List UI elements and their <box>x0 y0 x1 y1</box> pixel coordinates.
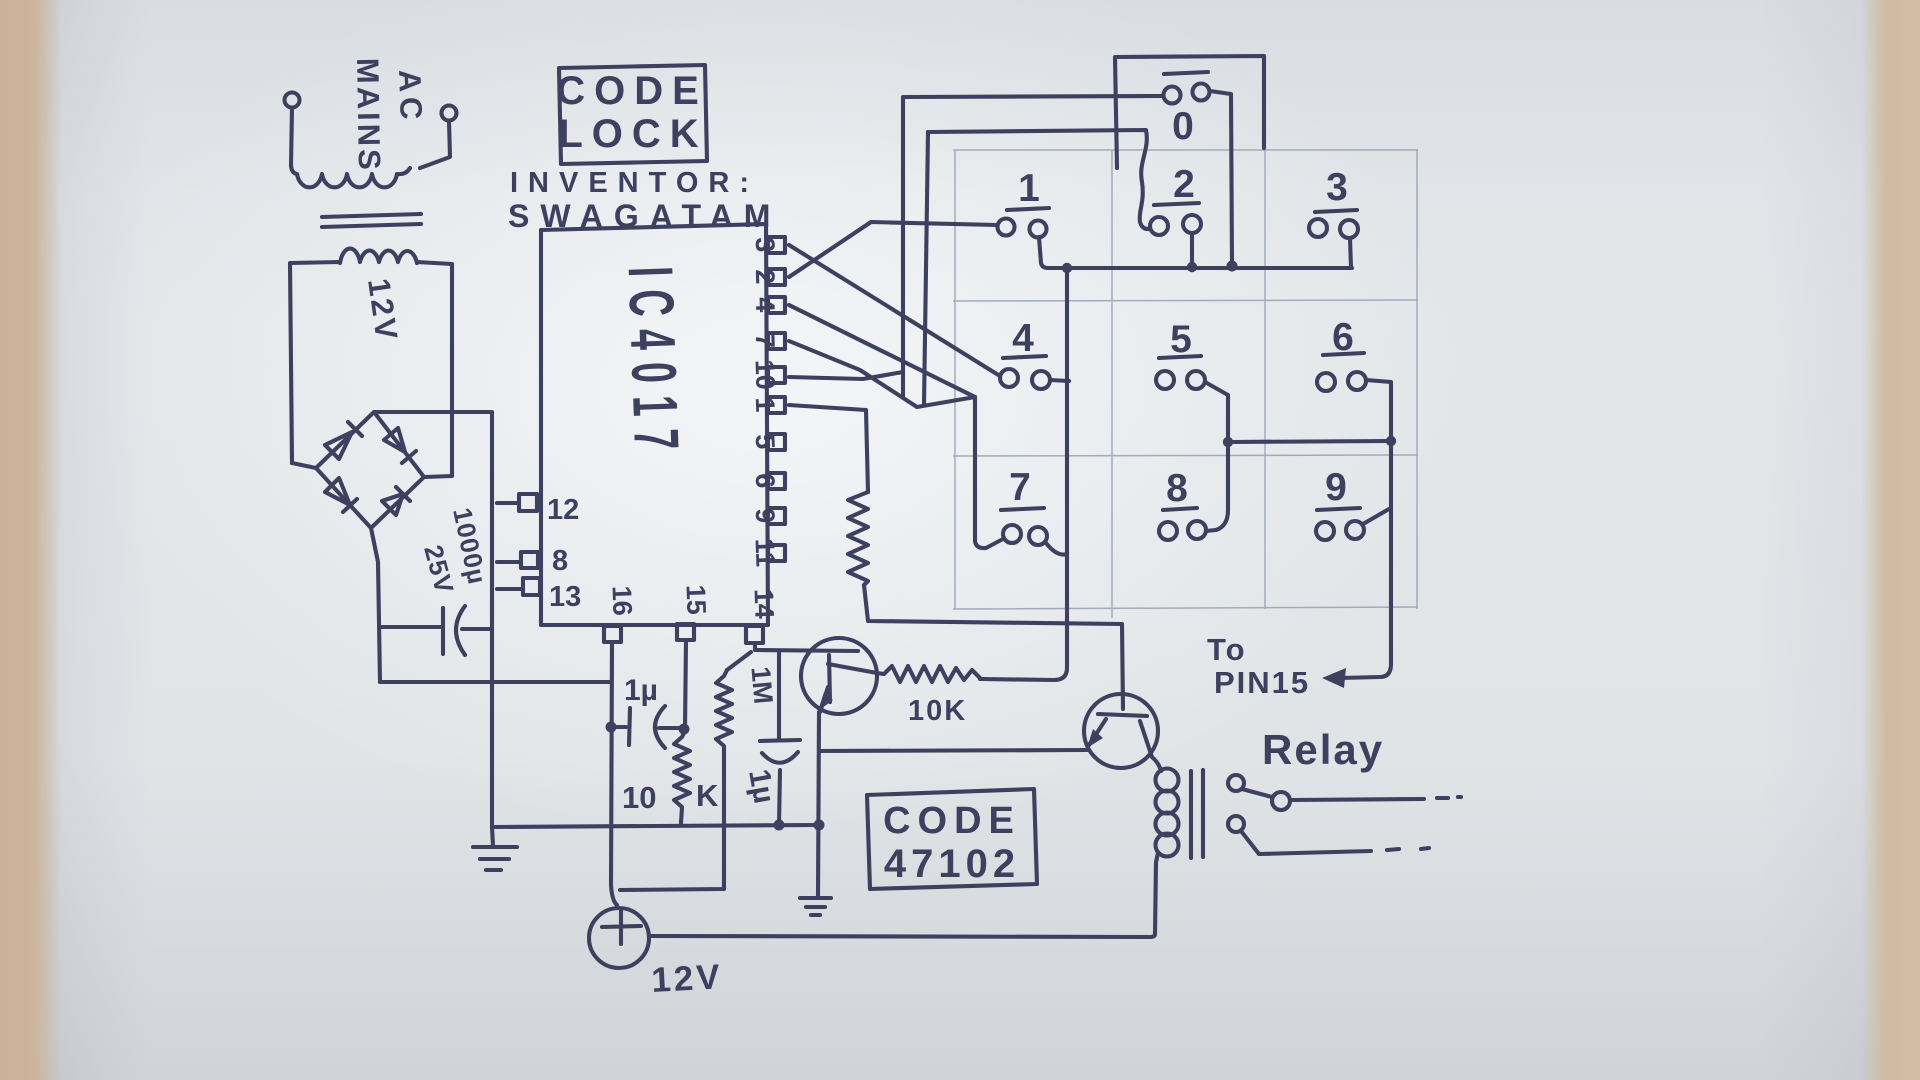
wire switch2 right down <box>1190 233 1194 268</box>
switch S1 contacts <box>998 219 1015 236</box>
wire bridge plus output <box>374 410 490 414</box>
svg-text:2: 2 <box>1173 163 1195 206</box>
svg-text:1µ: 1µ <box>742 767 780 806</box>
pin 7 <box>768 333 785 349</box>
wire secondary left down <box>290 262 340 463</box>
resistor R4 10K horizontal <box>877 666 980 682</box>
relay RL1 coil <box>1156 769 1179 792</box>
switch S0 contacts <box>1164 87 1181 104</box>
transformer T1 primary winding <box>291 164 410 187</box>
capacitor C2 1u plates <box>629 708 630 745</box>
wire switch6 right down to pin15 arrow <box>1340 380 1391 678</box>
switch S7 underline <box>1001 508 1044 510</box>
switch S6 contacts <box>1317 373 1335 391</box>
svg-text:AC: AC <box>392 69 429 125</box>
svg-text:LOCK: LOCK <box>558 112 707 156</box>
svg-text:MAINS: MAINS <box>350 58 387 173</box>
svg-text:25V: 25V <box>418 542 460 597</box>
relay arm <box>1242 789 1272 797</box>
svg-text:8: 8 <box>1166 467 1188 510</box>
svg-text:12: 12 <box>547 494 579 526</box>
switch S5 contacts <box>1156 371 1174 389</box>
diode D4 <box>382 487 410 515</box>
wire R3 bottom to battery line <box>620 752 724 890</box>
wire secondary right down <box>417 262 452 477</box>
svg-text:10K: 10K <box>908 695 967 727</box>
pin 5 <box>768 434 785 450</box>
wire <box>291 108 292 166</box>
transformer T1 primary terminal right <box>442 106 457 121</box>
label AC MAINS <box>350 58 429 173</box>
wire relay lower out <box>1259 851 1371 854</box>
junction dot <box>1062 263 1072 273</box>
svg-text:12V: 12V <box>361 276 405 344</box>
switch S7 contacts <box>1003 525 1021 543</box>
wire switch1 right down to bus <box>1039 237 1048 268</box>
svg-text:6: 6 <box>750 473 781 489</box>
transistor Q1 <box>801 638 877 714</box>
bridge rectifier edges <box>316 412 424 528</box>
relay contact NO <box>1272 792 1290 810</box>
transformer T1 primary terminal left <box>285 93 300 108</box>
svg-text:CODE: CODE <box>556 69 708 113</box>
wire to bridge left node <box>292 463 316 468</box>
svg-text:9: 9 <box>1325 466 1347 509</box>
wire <box>420 121 450 168</box>
wire emitter link to Q2 <box>819 750 1087 751</box>
wire pin14 junction <box>755 643 858 651</box>
wire keypad common vertical to 10K <box>980 268 1067 680</box>
switch S2 underline <box>1154 203 1199 205</box>
dashes <box>1437 797 1461 798</box>
resistor R1 vertical <box>848 492 868 585</box>
junction dot <box>814 820 825 831</box>
wire R1 bottom to Q2 base line <box>864 585 1123 709</box>
wire branch to switch7 right <box>1046 543 1067 555</box>
relay core lines <box>1191 770 1203 858</box>
wire switch4 right arm <box>1050 380 1069 381</box>
junction dot <box>774 820 785 831</box>
wire switch5 right to switch8 right <box>1205 382 1228 531</box>
switch S8 contacts <box>1159 522 1177 540</box>
svg-text:4: 4 <box>750 297 781 313</box>
transformer T1 secondary winding <box>340 249 417 263</box>
svg-text:2: 2 <box>750 269 781 285</box>
resistor R3 1M vertical <box>716 670 732 752</box>
keypad grid lines <box>953 150 1418 618</box>
wire coil bottom down <box>1150 853 1158 937</box>
pin 10 <box>768 367 785 383</box>
wire ground rail <box>492 825 819 827</box>
switch S2 contacts <box>1150 217 1168 235</box>
svg-text:K: K <box>696 778 719 813</box>
svg-text:3: 3 <box>750 237 781 253</box>
junction dot <box>1223 437 1233 447</box>
wire pin3 to switch4 <box>789 245 1000 376</box>
switch S5 underline <box>1159 356 1201 358</box>
pin 16 <box>604 626 621 642</box>
svg-text:Relay: Relay <box>1262 726 1384 773</box>
Q2 emitter arrow <box>1087 729 1103 748</box>
ground G1 <box>473 827 517 870</box>
dashes <box>1387 848 1429 850</box>
svg-text:1: 1 <box>1018 167 1040 210</box>
wire to cap C2 <box>611 725 626 729</box>
svg-text:INVENTOR:: INVENTOR: <box>510 167 759 199</box>
wire relay NO out <box>1290 799 1424 800</box>
svg-text:7: 7 <box>1009 466 1031 509</box>
pin 8 <box>521 552 538 568</box>
svg-text:15: 15 <box>680 584 711 615</box>
pin 1 <box>768 397 785 413</box>
wire bottom horizontal to pin16 line <box>380 680 610 684</box>
svg-text:13: 13 <box>549 581 581 613</box>
switch S4 underline <box>1003 356 1046 358</box>
relay contact common <box>1228 775 1244 791</box>
wire cap C1 left <box>380 625 440 629</box>
wire switch9 right arm <box>1363 509 1389 524</box>
pin 13 <box>523 578 540 595</box>
wire inner corner vertical <box>924 132 928 405</box>
wire inner corner to switch2 <box>928 130 1150 229</box>
svg-text:47102: 47102 <box>884 842 1020 886</box>
diode D2 <box>384 428 416 463</box>
pin 15 <box>677 624 694 640</box>
wire bridge bottom down <box>371 528 380 682</box>
capacitor C3 1u plates <box>760 740 800 741</box>
box CODE 47102 <box>867 789 1037 889</box>
svg-text:8: 8 <box>552 545 568 577</box>
svg-text:10: 10 <box>749 359 780 390</box>
junction dot <box>1187 262 1197 272</box>
wire pin16 down to battery <box>611 642 617 905</box>
wire pin1 via resistor R1 <box>789 405 868 492</box>
pin 6 <box>768 473 785 489</box>
switch S8 underline <box>1163 508 1197 510</box>
junction dot <box>606 722 617 733</box>
ground G2 <box>800 898 831 915</box>
wire corner down to switch7 left <box>975 397 1003 548</box>
pin 14 <box>746 626 763 643</box>
pin 9 <box>768 508 785 524</box>
svg-text:1M: 1M <box>745 665 778 705</box>
pin 11 <box>768 545 785 561</box>
wire switch0 right <box>1210 91 1232 265</box>
wire pin14 to resistor R3 <box>727 652 751 670</box>
diode D3 <box>325 478 357 512</box>
wire cap C2 right <box>659 726 684 730</box>
title box CODE LOCK <box>559 65 707 164</box>
junction dot <box>1386 436 1396 446</box>
wire switch0 left to corner <box>905 96 1163 97</box>
wire Q1 emitter down to ground <box>818 712 819 897</box>
svg-text:12V: 12V <box>650 957 723 1000</box>
switch S9 contacts <box>1316 522 1334 540</box>
switch S6 underline <box>1323 353 1364 355</box>
pin 12 <box>519 494 537 511</box>
svg-text:9: 9 <box>750 508 781 524</box>
wire pin 8 <box>497 560 521 564</box>
transistor Q2 <box>1084 694 1158 768</box>
wire row bus <box>1048 266 1352 270</box>
wire main vertical rail <box>490 412 494 827</box>
switch S3 contacts <box>1309 219 1327 237</box>
Q1 emitter arrow <box>818 692 833 711</box>
wire battery plus to relay <box>649 936 1150 937</box>
transformer T1 core <box>322 214 421 217</box>
pin 3 <box>768 237 785 253</box>
svg-text:1: 1 <box>750 397 781 413</box>
relay arm lower <box>1241 831 1259 854</box>
switch S3 underline <box>1315 210 1357 212</box>
wire pin 12 <box>497 501 519 505</box>
switch S4 contacts <box>1000 369 1018 387</box>
svg-text:10: 10 <box>622 780 656 815</box>
wire pin15 down <box>685 640 686 729</box>
arrowhead to pin 15 <box>1322 668 1346 688</box>
wire pin4 to corner <box>789 305 975 397</box>
pin 2 <box>768 269 785 285</box>
svg-text:CODE: CODE <box>883 800 1021 842</box>
wire pin 13 <box>497 587 523 591</box>
svg-text:3: 3 <box>1326 166 1348 209</box>
relay contact lower <box>1228 816 1244 832</box>
wire pin10 to keypad vertical <box>789 372 903 379</box>
wire pin2 to switch1 <box>789 222 997 277</box>
diode D1 <box>325 422 362 459</box>
resistor R2 10K vertical <box>674 731 690 823</box>
junction dot <box>679 724 690 735</box>
IC U1 body <box>541 224 768 625</box>
wire C3 bottom to rail <box>779 770 780 825</box>
switch S9 underline <box>1317 508 1360 510</box>
wire cap C1 right <box>462 627 492 631</box>
pin 4 <box>768 297 785 313</box>
svg-text:0: 0 <box>1172 105 1194 148</box>
Q2 collector <box>1140 721 1161 771</box>
junction dot <box>1227 261 1238 272</box>
capacitor C1 1000u plates <box>441 608 445 654</box>
switch S0 overline <box>1164 72 1208 74</box>
svg-text:5: 5 <box>750 434 781 450</box>
wire corner down V1 <box>901 97 905 396</box>
svg-text:To: To <box>1207 632 1247 667</box>
wire pin7 to vertex <box>789 341 975 407</box>
svg-text:11: 11 <box>750 538 781 568</box>
wire tie bus 8-9 <box>1228 441 1391 442</box>
svg-text:16: 16 <box>606 585 637 616</box>
svg-text:7: 7 <box>750 333 781 349</box>
svg-text:PIN15: PIN15 <box>1214 665 1310 700</box>
switch S1 underline <box>1007 208 1049 210</box>
wire C3 top to base line <box>777 651 781 740</box>
svg-text:14: 14 <box>748 588 779 619</box>
svg-text:1µ: 1µ <box>624 674 658 707</box>
box around switch 0 <box>1115 56 1264 168</box>
svg-text:4: 4 <box>1012 317 1034 360</box>
wire switch3 right down <box>1350 238 1351 268</box>
svg-text:IC4017: IC4017 <box>614 265 691 463</box>
battery BT1 12V <box>589 908 649 968</box>
